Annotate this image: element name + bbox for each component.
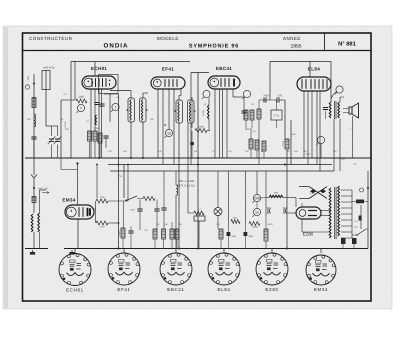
wire EZ80 top: [301, 203, 303, 207]
socket EF41 bottom view: [108, 253, 140, 292]
node j9: [118, 248, 120, 250]
wire CV2 down: [57, 145, 59, 159]
wire EBC41 plate: [232, 89, 234, 97]
wire grid line: [60, 100, 62, 158]
pin circle c: [335, 86, 343, 94]
resistor R5 44k: [195, 129, 207, 133]
capacitor C17: [352, 238, 357, 244]
wire R13 down long: [286, 149, 288, 249]
resistor R1 antenna series: [32, 98, 36, 108]
coil L4 winding: [38, 213, 40, 232]
wire EL84 pin5: [319, 91, 321, 171]
wire plate link: [233, 96, 244, 98]
wire L3 to ground bus: [33, 232, 35, 249]
wire HT top rail: [71, 61, 190, 63]
wire R2b down: [89, 141, 91, 158]
wire speaker a: [343, 108, 349, 110]
wire em34 return: [108, 222, 119, 224]
svg-text:7600: 7600: [306, 153, 312, 156]
node em34 return: [118, 222, 120, 224]
wire pot in: [137, 198, 143, 200]
wire socket feed 321: [320, 249, 322, 254]
node j10: [178, 248, 180, 250]
wire R3 down: [94, 141, 96, 158]
wire T4 tap 2: [341, 195, 352, 197]
capacitor C15 electrolytic: [284, 207, 287, 214]
resistor R11: [250, 110, 254, 120]
coil L3 winding: [31, 214, 33, 232]
svg-text:ECH81: ECH81: [66, 288, 84, 293]
svg-text:1MΩ: 1MΩ: [246, 128, 251, 131]
wire cv1 drop: [51, 126, 53, 136]
svg-text:EBC41: EBC41: [167, 287, 184, 292]
EM34 target bars: [88, 208, 91, 216]
wire R10 down: [245, 120, 247, 130]
resistor R27 small: [32, 197, 36, 203]
wire em34 jog a: [60, 158, 62, 170]
wire filter a: [228, 171, 230, 226]
wire screen stub: [104, 93, 119, 95]
svg-text:SYMPHONIE 96: SYMPHONIE 96: [189, 44, 239, 50]
resistor R10: [244, 110, 248, 120]
wire S2 in: [352, 234, 357, 236]
wire box feed: [276, 100, 278, 110]
wire R8 down: [250, 149, 252, 158]
wire EBC41 pin2: [219, 89, 221, 158]
wire oscillator grid: [74, 62, 76, 101]
wire C13 gnd: [245, 236, 247, 249]
wire T4 tap 3: [341, 201, 352, 203]
capacitor C11: [128, 231, 133, 233]
capacitor C2a grid: [94, 103, 99, 105]
wire em34 vertical: [95, 201, 97, 223]
node j11: [286, 248, 288, 250]
svg-text:44kΩ: 44kΩ: [198, 126, 204, 129]
resistor P1 pot 500k: [143, 197, 155, 201]
resistor R16 150k: [121, 228, 125, 238]
svg-text:A.MOD: A.MOD: [64, 121, 67, 128]
node antenna tap: [33, 83, 35, 85]
resistor R22 500: [264, 229, 268, 241]
IF transformer T1 primary: [128, 98, 135, 122]
wire ECH81 pin2: [94, 89, 96, 131]
wire R11 down: [251, 120, 253, 128]
svg-text:1e: 1e: [255, 210, 259, 214]
wire em34 stub: [94, 208, 96, 210]
pin circle T: [76, 104, 84, 112]
svg-text:POT. 0-1,2 kΩ: POT. 0-1,2 kΩ: [178, 185, 195, 188]
node j5: [197, 164, 199, 166]
svg-text:ONDIA: ONDIA: [104, 43, 129, 50]
arrow PU input: [42, 192, 49, 194]
wire C4 down: [243, 113, 245, 120]
wire T2 primary return long: [178, 123, 180, 249]
svg-text:1nF: 1nF: [158, 150, 162, 153]
IF transformer T2 secondary: [188, 100, 195, 123]
svg-text:N° 881: N° 881: [338, 41, 357, 48]
header separator line: [23, 50, 372, 52]
wire R7 top: [208, 98, 210, 105]
wire AVC bus: [25, 157, 371, 159]
T3 secondary winding: [338, 102, 340, 118]
resistor R9: [255, 140, 259, 150]
wire cv2 drop: [57, 126, 59, 136]
pin circle b: [242, 90, 250, 98]
socket EM34 bottom view: [306, 255, 336, 292]
tube EL84 output: [297, 67, 331, 92]
resistor R26 1k: [96, 221, 108, 225]
wire EZ80 link: [302, 231, 330, 233]
wire socket feed 176: [175, 249, 177, 254]
wire R5 out: [207, 130, 210, 132]
wire L4 to ground bus: [39, 232, 41, 249]
IF transformer T1 secondary: [140, 98, 147, 122]
wire C1 to bus: [33, 139, 35, 158]
wire C9 down: [156, 211, 158, 229]
wire C3 down: [191, 145, 193, 158]
wire OT down b: [339, 119, 341, 171]
svg-text:16: 16: [167, 131, 171, 135]
wire T2 sec top: [190, 73, 192, 101]
wire L5 down: [175, 195, 177, 248]
wire EF41 pin3: [168, 89, 170, 129]
wire R22 top: [265, 216, 267, 229]
wire speaker b: [343, 112, 349, 114]
wire centre HT feed: [197, 73, 199, 249]
resistor R3 cathode: [93, 131, 97, 141]
wire choke to EZ80: [295, 198, 297, 208]
wire C4 top: [243, 97, 245, 111]
schematic outer frame: [23, 33, 372, 301]
lamp LP1 dial: [214, 208, 222, 216]
svg-text:EF41: EF41: [117, 287, 130, 292]
resistor R24 100k: [249, 222, 260, 226]
wire EM34 cathode: [77, 219, 79, 249]
T4 primary winding: [329, 188, 331, 238]
node T2 tap: [175, 110, 177, 112]
wire OT feed: [330, 62, 332, 103]
svg-text:50μF: 50μF: [248, 235, 254, 238]
wire mains upper: [360, 205, 362, 229]
wire T2 in: [178, 96, 180, 101]
capacitor C6 475: [277, 97, 279, 102]
wire ECH81 pin5: [109, 94, 111, 123]
selector circle: [360, 188, 364, 192]
switch S1 pickup: [124, 165, 137, 201]
wire C11 top: [130, 226, 132, 231]
node j4: [118, 164, 120, 166]
wire det line: [259, 99, 277, 101]
wire speaker down: [352, 116, 354, 158]
wire CV1 to bus: [51, 145, 53, 159]
switch S2 mains: [357, 229, 366, 235]
node em34 blob: [76, 162, 78, 164]
resistor R9b: [262, 141, 266, 151]
wire ECH81 plate: [94, 62, 96, 77]
svg-text:ECH81: ECH81: [91, 66, 107, 71]
wire EF41 pin4: [173, 89, 175, 165]
svg-text:ANT: ANT: [27, 118, 32, 121]
wire R9b down: [263, 151, 265, 158]
wire choke out: [283, 197, 296, 199]
svg-text:0,5M: 0,5M: [291, 133, 296, 136]
wire ann d down: [320, 144, 322, 158]
IF transformer T2 primary: [176, 100, 183, 123]
wire socket feed 224: [223, 249, 225, 254]
volume winding R7: [208, 105, 210, 119]
node j2: [130, 157, 132, 159]
wire C12 gnd: [228, 236, 230, 249]
wire R19 top: [171, 222, 173, 229]
oscillator section box: [99, 75, 119, 94]
capacitor C10 50nF: [161, 208, 166, 210]
wire C2 down: [105, 138, 107, 148]
wire screen feed long: [118, 94, 120, 249]
svg-text:A43 N°5x: A43 N°5x: [43, 67, 55, 70]
oscillator coil L6: [95, 115, 97, 125]
svg-text:2nF: 2nF: [116, 96, 120, 99]
wire L5 top: [175, 171, 177, 185]
wire EBC41 pin1: [214, 89, 216, 158]
wire C8 top: [139, 200, 141, 210]
wire R19 gnd: [171, 239, 173, 249]
svg-text:f: f: [115, 105, 116, 109]
svg-text:1955: 1955: [290, 44, 301, 50]
capacitor CV1 tuning: [48, 136, 56, 144]
wire C3 up: [191, 131, 193, 142]
capacitor C12 50uF electrolytic: [227, 232, 231, 236]
pin circle small: [25, 85, 29, 89]
wire R12 down: [258, 119, 260, 165]
wire EL84 pin1: [303, 91, 305, 158]
wire EF41 pin2: [162, 89, 164, 165]
wire C10 down: [163, 210, 165, 229]
svg-text:EF41: EF41: [162, 67, 174, 72]
wire ann curve: [332, 92, 337, 99]
wire T3 sec link: [340, 96, 344, 98]
output transformer T3 core: [335, 101, 336, 119]
wire EL84 pin2: [307, 91, 309, 165]
resistor R2b: [88, 131, 92, 141]
wire C16 gnd: [342, 244, 344, 249]
wire R8 top: [250, 128, 252, 139]
wire AF 2: [290, 120, 292, 165]
pin circle d: [316, 136, 324, 145]
svg-text:EXC: EXC: [341, 158, 346, 161]
wire ez80 left: [288, 212, 297, 214]
tube EF41 IF amplifier: [151, 67, 185, 90]
pin circle 1e: [252, 208, 260, 217]
svg-text:500Ω: 500Ω: [267, 223, 273, 226]
capacitor C8 12nF: [137, 209, 142, 211]
node j7: [284, 164, 286, 166]
choke winding: [269, 195, 283, 197]
wire C18 down: [325, 111, 327, 120]
capacitor C14 electrolytic: [268, 207, 271, 214]
svg-text:RES: RES: [27, 75, 30, 80]
wire C10 top: [163, 171, 165, 208]
wire T4 tap 9: [341, 237, 352, 239]
tube EBC41 detector: [208, 66, 240, 89]
resistor R19: [170, 229, 174, 239]
pin circle 16: [164, 129, 172, 138]
node j12: [96, 164, 98, 166]
wire T1 to EF41 grid: [143, 92, 148, 94]
resistor R14 4.7: [194, 211, 204, 215]
wire socket feed 272: [271, 249, 273, 254]
svg-text:EM34: EM34: [62, 198, 75, 203]
T4 secondary winding: [338, 186, 340, 236]
EBC41 anode bar: [233, 79, 235, 87]
node j1: [98, 157, 100, 159]
wire C9 top: [156, 200, 158, 210]
wire R5 feed: [191, 97, 193, 128]
node j6: [197, 157, 199, 159]
wire C13 top: [245, 222, 247, 232]
wire R4 down: [99, 143, 101, 158]
T1 secondary winding: [141, 100, 142, 121]
wire L4 link: [40, 189, 47, 191]
svg-text:15kΩ: 15kΩ: [94, 127, 100, 130]
resistor R25 1k: [96, 199, 108, 203]
resistor R17: [153, 229, 157, 239]
wire T4 tap 6: [341, 219, 352, 221]
wire R9 down: [256, 150, 258, 158]
tube ECH81 triode-heptode: [82, 66, 116, 89]
wire S2 out: [366, 228, 368, 230]
svg-text:1 kΩ: 1 kΩ: [100, 196, 105, 199]
svg-text:12nF: 12nF: [130, 209, 136, 212]
wire mains down: [367, 171, 369, 249]
capacitor C18 tone: [323, 108, 328, 110]
wire R16 top: [123, 201, 125, 228]
wire R21 gnd: [220, 239, 222, 249]
fuse F2 small: [359, 216, 362, 221]
coil L2 choke: [34, 114, 36, 127]
wire plate to T1: [110, 90, 131, 92]
wire R14 in: [188, 212, 194, 214]
node T2 tap b: [194, 110, 196, 112]
wire socket feed 75: [74, 249, 76, 254]
socket EZ80 bottom view: [256, 253, 288, 292]
svg-text:EM34: EM34: [314, 287, 328, 292]
wire R18 gnd: [163, 239, 165, 249]
header divider: [324, 33, 326, 51]
resistor R4: [98, 133, 102, 143]
svg-text:2kΩ: 2kΩ: [233, 217, 237, 220]
socket ECH81 bottom view: [59, 254, 91, 293]
resistor box R15: [194, 216, 205, 221]
svg-text:7080: 7080: [263, 95, 269, 98]
wire em34 jog b: [61, 169, 78, 171]
svg-text:50μF: 50μF: [231, 235, 237, 238]
capacitor C2: [103, 136, 108, 138]
svg-text:3,2MΩ: 3,2MΩ: [202, 109, 205, 116]
svg-text:6,3V: 6,3V: [310, 192, 315, 195]
fuse F1: [356, 200, 364, 204]
wire T3 sec top: [339, 97, 341, 102]
resistor R20: [175, 229, 179, 239]
node T1 tap: [127, 109, 129, 111]
socket EL84 bottom view: [208, 253, 240, 292]
tube EM34 magic eye: [62, 198, 94, 220]
wire ann top: [256, 171, 258, 194]
capacitor C1: [31, 137, 36, 139]
svg-text:EBC41: EBC41: [216, 66, 232, 71]
svg-text:27000: 27000: [282, 140, 285, 147]
wire T2 secondary return: [190, 123, 192, 165]
wire cathode bus: [108, 164, 332, 166]
node j8: [197, 248, 199, 250]
wire socket feed 124: [123, 249, 125, 254]
wire HT top rail right: [270, 61, 317, 63]
wire T2 sec down long: [187, 123, 189, 213]
T2 secondary winding: [189, 102, 190, 122]
wire L4 top: [39, 190, 41, 213]
resistor R8: [249, 139, 253, 149]
wire heater bus: [110, 170, 334, 172]
wire T4 tap 5: [341, 213, 352, 215]
T1 primary winding: [130, 100, 131, 121]
resistor R23 2k: [231, 220, 240, 224]
wire EBC41 grid top: [191, 72, 209, 74]
wire EBC41 pin4: [226, 89, 228, 158]
wire tuning: [45, 90, 47, 127]
wire R20 gnd: [176, 239, 178, 249]
component box 2TA: [271, 110, 282, 120]
wire EZ80 plate b: [321, 215, 330, 217]
node j13: [127, 164, 129, 166]
wire antenna lead: [33, 74, 35, 175]
wire rail ext: [317, 61, 331, 63]
wire OT down a: [333, 119, 335, 171]
wire em34 feed b: [96, 165, 98, 199]
resistor R12: [257, 109, 261, 119]
node EF41 k: [164, 124, 166, 126]
heater crossing wires: [299, 187, 327, 199]
wire R16 gnd: [122, 238, 124, 249]
resistor R13 grid: [285, 139, 289, 149]
node ANT OC: [33, 187, 35, 189]
scan shadow left edge: [4, 27, 8, 308]
capacitor CV2 padder: [54, 136, 62, 144]
wire R15 down: [198, 221, 200, 249]
svg-text:EL84: EL84: [217, 287, 230, 292]
wire oscillator anode: [70, 62, 72, 159]
wire grid link: [61, 99, 75, 101]
wire ann mid: [256, 202, 258, 209]
wire C17 gnd: [353, 244, 355, 249]
wire T4 tap 1: [341, 189, 352, 191]
wire em34 grid feed: [108, 200, 128, 202]
node T1 tap b: [146, 109, 148, 111]
capacitor C16: [341, 238, 346, 244]
capacitor C2b: [99, 104, 104, 106]
wire C8 down: [139, 211, 141, 230]
wire AF feed top: [269, 62, 271, 101]
antenna symbol: [31, 175, 37, 184]
wire EBC41 pin3: [222, 89, 224, 158]
wire choke in: [261, 197, 269, 200]
wire em34 feed vertical: [127, 165, 129, 202]
wire det line b: [279, 99, 285, 101]
wire EZ80 plate a: [321, 210, 330, 212]
wire fuse out: [364, 201, 368, 203]
wire fuse in: [352, 201, 356, 203]
wire lamp top: [217, 171, 219, 208]
svg-text:22kΩ: 22kΩ: [78, 96, 84, 99]
svg-text:ANNEE: ANNEE: [283, 36, 301, 41]
